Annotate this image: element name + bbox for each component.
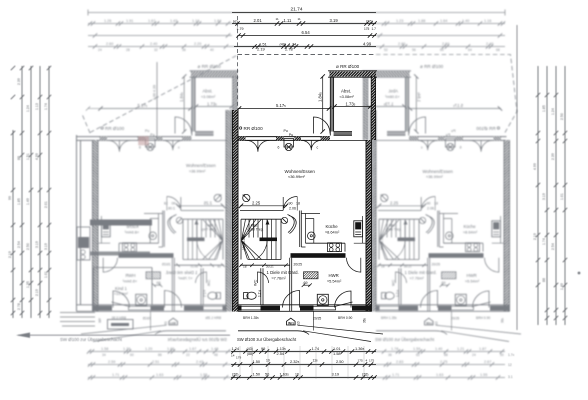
svg-text:ø RR Ø100: ø RR Ø100	[420, 64, 444, 69]
svg-text:2.39: 2.39	[551, 153, 555, 160]
svg-text:1.79: 1.79	[237, 27, 244, 31]
svg-text:1.58: 1.58	[101, 347, 108, 351]
svg-text:1.26: 1.26	[104, 19, 111, 23]
svg-text:1.11: 1.11	[284, 18, 293, 23]
svg-text:4.99: 4.99	[35, 153, 39, 160]
svg-text:2.39: 2.39	[17, 78, 21, 85]
svg-text:2.54: 2.54	[551, 243, 555, 250]
svg-text:1.01: 1.01	[560, 193, 564, 200]
svg-text:24: 24	[98, 48, 102, 52]
extension lines from wall to bottom dims	[240, 346, 364, 379]
svg-text:1.71: 1.71	[392, 373, 399, 377]
svg-text:(26): (26)	[232, 373, 238, 377]
left neighbour unit: interior mirrored	[81, 110, 232, 342]
svg-text:2.83: 2.83	[396, 360, 403, 364]
left neighbour unit: top (storage+terrace) translated	[94, 71, 239, 152]
svg-text:4.99: 4.99	[533, 163, 537, 170]
svg-text:1.21: 1.21	[457, 347, 464, 351]
svg-text:1.13: 1.13	[35, 103, 39, 110]
svg-text:99: 99	[8, 196, 12, 200]
svg-text:3.19: 3.19	[44, 243, 48, 250]
svg-text:2.80: 2.80	[398, 42, 405, 46]
svg-text:1.74: 1.74	[508, 353, 515, 357]
svg-text:50: 50	[500, 353, 504, 357]
svg-text:ø RR Ø100: ø RR Ø100	[336, 64, 360, 69]
left unit top wall west extension	[77, 137, 95, 141]
svg-text:2.19: 2.19	[257, 47, 266, 52]
svg-text:40: 40	[210, 48, 214, 52]
svg-text:2.19: 2.19	[35, 289, 39, 296]
svg-text:ø RR Ø100: ø RR Ø100	[198, 64, 222, 69]
svg-text:14: 14	[231, 354, 235, 358]
svg-text:1.50: 1.50	[253, 372, 261, 377]
svg-text:12: 12	[508, 363, 512, 367]
left unit bottom room box	[94, 268, 153, 305]
svg-text:1.63: 1.63	[156, 373, 163, 377]
svg-text:1.87: 1.87	[479, 347, 486, 351]
dashed party wall axis above middle unit	[237, 16, 239, 110]
svg-text:175: 175	[369, 359, 374, 363]
svg-text:Kind 1: Kind 1	[115, 286, 128, 291]
svg-text:4: 4	[366, 359, 368, 363]
left unit reddish post marker	[139, 137, 149, 146]
mask duplicated label in left unit	[145, 167, 182, 180]
svg-text:6.54: 6.54	[302, 30, 311, 35]
svg-text:(88): (88)	[247, 352, 253, 356]
svg-text:1.51: 1.51	[259, 41, 268, 46]
svg-text:(e): (e)	[233, 19, 238, 23]
dim row bottom-2 sharp	[231, 362, 376, 366]
svg-text:2.20: 2.20	[194, 42, 201, 46]
svg-text:2.50: 2.50	[560, 113, 564, 120]
svg-text:2.19: 2.19	[8, 251, 12, 258]
svg-text:1.59: 1.59	[413, 347, 420, 351]
svg-text:2.54: 2.54	[277, 351, 285, 356]
svg-text:2.325: 2.325	[290, 359, 300, 364]
svg-text:88: 88	[542, 278, 546, 282]
svg-text:1.7: 1.7	[372, 27, 377, 31]
svg-text:1.74: 1.74	[289, 41, 298, 46]
svg-text:2.40: 2.40	[150, 42, 157, 46]
dashed canopy outline left diagonal	[90, 55, 238, 133]
svg-text:1.24: 1.24	[551, 108, 555, 115]
svg-text:1.51: 1.51	[26, 153, 30, 160]
dim row top-1 sharp segment + overall 21.74	[232, 12, 376, 14]
svg-text:36: 36	[388, 353, 392, 357]
svg-text:4.99: 4.99	[363, 42, 372, 47]
svg-text:1.43: 1.43	[170, 19, 177, 23]
svg-text:56: 56	[412, 48, 416, 52]
svg-text:1.40: 1.40	[435, 347, 442, 351]
left unit thick wall band kitchen	[90, 220, 152, 226]
dim row top-4 faded	[88, 44, 505, 48]
svg-text:1.365: 1.365	[355, 346, 365, 351]
svg-text:52: 52	[384, 48, 388, 52]
svg-text:175: 175	[364, 27, 370, 31]
dim row bottom-3 sharp	[231, 375, 377, 379]
svg-text:1.20: 1.20	[145, 347, 152, 351]
svg-text:88: 88	[17, 156, 21, 160]
svg-text:1.63: 1.63	[436, 373, 443, 377]
dim row top-3 faded	[88, 33, 505, 37]
svg-text:62: 62	[416, 353, 420, 357]
left unit kitchen counter + appliances along west wall	[77, 227, 90, 260]
svg-text:SW Ø100 zur Übergabeschacht: SW Ø100 zur Übergabeschacht	[60, 337, 123, 342]
dim row top-2 faded	[88, 21, 505, 25]
drainage arrow bottom left	[18, 334, 230, 336]
svg-text:1.48: 1.48	[211, 347, 218, 351]
svg-text:2.19: 2.19	[533, 233, 537, 240]
svg-text:48: 48	[214, 353, 218, 357]
svg-text:3.19: 3.19	[542, 193, 546, 200]
svg-text:2.54: 2.54	[17, 241, 21, 248]
svg-text:1.635: 1.635	[280, 372, 290, 377]
svg-text:1.24: 1.24	[232, 346, 240, 351]
svg-text:2.51: 2.51	[152, 360, 159, 364]
svg-text:(26): (26)	[366, 19, 373, 23]
svg-text:2.01: 2.01	[254, 18, 263, 23]
svg-text:1.49: 1.49	[560, 283, 564, 290]
svg-text:3.19: 3.19	[330, 18, 339, 23]
svg-text:64: 64	[468, 48, 472, 52]
svg-text:1.91: 1.91	[126, 19, 133, 23]
svg-text:≈10.9m²: ≈10.9m²	[114, 292, 129, 296]
svg-text:1.19: 1.19	[192, 19, 199, 23]
dim row top-4 sharp	[234, 44, 376, 48]
svg-text:1.86: 1.86	[167, 347, 174, 351]
svg-text:11: 11	[298, 17, 301, 21]
svg-text:1.16: 1.16	[484, 19, 491, 23]
svg-text:60: 60	[440, 48, 444, 52]
svg-text:18: 18	[295, 373, 299, 377]
svg-text:1.67: 1.67	[148, 19, 155, 23]
svg-text:24: 24	[472, 353, 476, 357]
svg-text:1.35: 1.35	[26, 281, 30, 288]
svg-text:68: 68	[496, 48, 500, 52]
svg-text:2.60: 2.60	[106, 42, 113, 46]
svg-text:1.23: 1.23	[396, 19, 403, 23]
svg-text:Wohnen/Essen: Wohnen/Essen	[186, 163, 216, 168]
dim row bottom-3 faded	[88, 375, 505, 379]
svg-text:2.67: 2.67	[484, 360, 491, 364]
svg-text:1.49: 1.49	[26, 198, 30, 205]
svg-text:2.78: 2.78	[285, 47, 294, 52]
svg-text:3.19: 3.19	[332, 372, 340, 377]
svg-text:2.78: 2.78	[17, 303, 21, 310]
svg-text:3.1: 3.1	[508, 375, 513, 379]
svg-text:1.39: 1.39	[123, 347, 130, 351]
dim row bottom-1 sharp	[231, 349, 376, 353]
right vertical dim chains	[517, 25, 567, 330]
svg-text:1.55: 1.55	[480, 373, 487, 377]
svg-text:1.40: 1.40	[462, 19, 469, 23]
svg-text:1.50: 1.50	[253, 359, 261, 364]
svg-text:3.19: 3.19	[35, 241, 39, 248]
dashed canopy outline horizontal (sharp over middle)	[238, 54, 377, 56]
svg-text:1.74: 1.74	[542, 238, 546, 245]
svg-text:1.88: 1.88	[418, 19, 425, 23]
svg-text:2.40: 2.40	[486, 42, 493, 46]
svg-text:1.74: 1.74	[44, 103, 48, 110]
svg-text:(26): (26)	[362, 373, 368, 377]
right neighbour unit: full mirrored	[362, 71, 507, 152]
svg-text:1.85: 1.85	[17, 198, 21, 205]
svg-text:≈36.99m²: ≈36.99m²	[189, 169, 206, 174]
svg-text:1.84: 1.84	[214, 19, 221, 23]
svg-text:36: 36	[182, 48, 186, 52]
svg-text:50: 50	[265, 372, 270, 377]
left vertical dim chains	[8, 66, 51, 318]
svg-text:60: 60	[130, 353, 134, 357]
svg-text:1.85: 1.85	[542, 105, 546, 112]
svg-text:179: 179	[236, 356, 241, 360]
svg-text:21.74: 21.74	[291, 7, 303, 13]
svg-text:118: 118	[313, 359, 319, 363]
svg-text:88: 88	[444, 353, 448, 357]
svg-text:2.43: 2.43	[196, 360, 203, 364]
svg-text:1.55: 1.55	[200, 373, 207, 377]
svg-text:2.50: 2.50	[26, 243, 30, 250]
svg-text:2.75: 2.75	[440, 360, 447, 364]
left unit bottom wall west extension	[77, 305, 94, 312]
svg-text:99: 99	[261, 346, 265, 351]
left unit outside steps bottom-left	[60, 313, 95, 327]
svg-text:2.01: 2.01	[44, 201, 48, 208]
svg-text:11: 11	[276, 17, 279, 21]
svg-text:32: 32	[154, 48, 158, 52]
dim row top-3 sharp 6.54	[236, 33, 376, 37]
svg-text:2.60: 2.60	[442, 42, 449, 46]
svg-text:1.67: 1.67	[189, 347, 196, 351]
svg-text:1.58: 1.58	[333, 351, 341, 356]
left unit vertical dim near terrace	[156, 62, 158, 140]
svg-text:28: 28	[126, 48, 130, 52]
svg-text:22: 22	[186, 353, 190, 357]
dim row top-2 sharp	[232, 21, 377, 25]
dim row bottom-2 faded	[88, 362, 505, 366]
svg-text:1.01: 1.01	[44, 271, 48, 278]
left unit outer wall west	[77, 135, 81, 311]
stray mark right	[578, 272, 581, 275]
svg-text:1.71: 1.71	[112, 373, 119, 377]
svg-text:34: 34	[102, 353, 106, 357]
left unit bottom-left label box	[108, 320, 134, 330]
svg-text:1.74: 1.74	[312, 346, 320, 351]
svg-text:1.78: 1.78	[391, 347, 398, 351]
dim row top-1 full line	[88, 10, 505, 16]
svg-text:175: 175	[358, 359, 363, 363]
svg-text:86: 86	[158, 353, 162, 357]
svg-text:1.64: 1.64	[440, 19, 447, 23]
dim row bottom-1 faded	[87, 349, 505, 353]
svg-text:2.50: 2.50	[336, 359, 344, 364]
svg-text:2.59: 2.59	[108, 360, 115, 364]
svg-text:1.24: 1.24	[26, 105, 30, 112]
left unit dim line west extension	[86, 106, 100, 110]
